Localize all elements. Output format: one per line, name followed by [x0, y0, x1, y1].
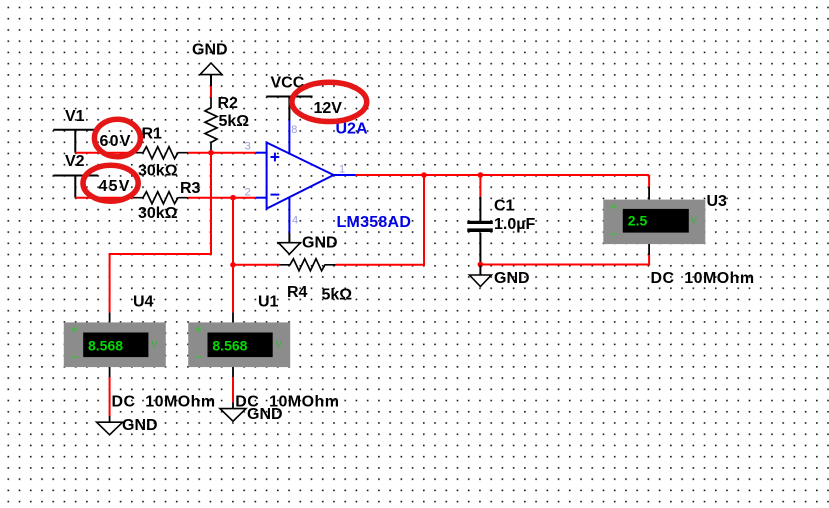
wire U3 top lead: [648, 175, 650, 187]
ground symbol top (R2): [192, 42, 228, 87]
svg-text:5kΩ: 5kΩ: [322, 287, 353, 304]
svg-text:U4: U4: [133, 294, 154, 311]
svg-text:GND: GND: [192, 42, 228, 59]
voltage source V2: [53, 153, 98, 198]
svg-text:GND: GND: [247, 406, 283, 423]
svg-text:V: V: [690, 215, 698, 227]
wire node F to U3 bottom: [480, 255, 649, 265]
svg-text:12V: 12V: [314, 100, 343, 117]
node E junction (C1 top): [478, 172, 484, 178]
svg-text:V1: V1: [65, 108, 85, 125]
svg-text:8.568: 8.568: [88, 338, 123, 354]
svg-text:60V: 60V: [100, 133, 132, 150]
svg-text:LM358AD: LM358AD: [337, 214, 412, 231]
resistor R2 5k: [205, 95, 249, 153]
svg-text:30kΩ: 30kΩ: [138, 205, 178, 222]
wire U1 top lead: [232, 312, 234, 322]
svg-text:45V: 45V: [99, 178, 131, 195]
wire node B down to U1: [232, 198, 234, 313]
svg-text:1.0µF: 1.0µF: [494, 216, 535, 233]
resistor R1 30k: [133, 126, 188, 180]
wire node A down to corner: [110, 153, 211, 313]
wire R3 to node B: [188, 197, 256, 199]
svg-text:5kΩ: 5kΩ: [219, 113, 250, 130]
resistor R3 30k: [133, 180, 201, 222]
ground symbol C1: [469, 265, 529, 288]
svg-text:C1: C1: [494, 198, 515, 215]
wire U4 bottom lead: [109, 367, 111, 422]
svg-text:4: 4: [292, 214, 298, 226]
annotation ellipse 45V: [83, 165, 138, 201]
svg-text:DC 10MOhm: DC 10MOhm: [112, 394, 216, 411]
svg-text:GND: GND: [494, 270, 530, 287]
wire V1 to R1: [75, 152, 133, 154]
op-amp U2A LM358AD: [267, 121, 412, 232]
pin 3 stub: [256, 152, 267, 154]
node F junction (C1 bottom): [478, 262, 484, 268]
pin 1 stub: [334, 174, 356, 176]
svg-text:R4: R4: [287, 284, 308, 301]
svg-text:R2: R2: [218, 95, 239, 112]
wire R1 to node A: [188, 152, 256, 154]
wire output net: [356, 174, 649, 176]
node A junction: [208, 150, 214, 156]
multimeter U3: [603, 187, 754, 287]
pin 4 stub: [288, 197, 290, 233]
svg-text:2: 2: [245, 187, 251, 199]
wire U1 bottom lead: [232, 367, 234, 409]
ground symbol op-amp: [278, 233, 337, 254]
ground symbol U4: [97, 417, 158, 435]
wire V2 to R3: [75, 197, 133, 199]
pin 8 stub: [288, 120, 290, 155]
wire U4 top lead: [109, 312, 111, 322]
node D junction (feedback): [421, 172, 427, 178]
capacitor C1 1.0uF: [467, 197, 535, 265]
svg-text:DC 10MOhm: DC 10MOhm: [651, 270, 755, 287]
svg-text:GND: GND: [302, 235, 338, 252]
resistor R4 5k: [280, 259, 353, 304]
node C junction (R4 tap): [230, 262, 236, 268]
ground symbol U1: [220, 406, 283, 423]
svg-text:V: V: [150, 339, 158, 351]
svg-text:30kΩ: 30kΩ: [138, 163, 178, 180]
voltage source V1: [53, 108, 98, 153]
svg-text:U3: U3: [707, 193, 728, 210]
svg-text:2.5: 2.5: [628, 213, 648, 229]
svg-text:V: V: [275, 339, 283, 351]
pin 2 stub: [256, 197, 267, 199]
svg-text:8.568: 8.568: [212, 338, 247, 354]
svg-text:8: 8: [291, 124, 297, 136]
wire node C to R4: [233, 264, 280, 266]
svg-text:R3: R3: [180, 180, 201, 197]
annotation ellipse 12V: [292, 82, 367, 121]
VCC rail: [266, 75, 312, 121]
svg-text:R1: R1: [142, 126, 163, 143]
annotation ellipse 60V: [94, 119, 140, 156]
svg-text:V2: V2: [65, 153, 85, 170]
multimeter U4: [64, 294, 216, 411]
svg-text:3: 3: [245, 140, 251, 152]
node B junction: [230, 195, 236, 201]
svg-text:1: 1: [339, 163, 345, 175]
wire R4 to output: [336, 175, 425, 265]
wire GND to R2: [210, 86, 212, 98]
multimeter U1: [188, 294, 339, 411]
svg-text:GND: GND: [122, 417, 158, 434]
wire node E down: [479, 175, 481, 197]
svg-text:U1: U1: [258, 294, 279, 311]
